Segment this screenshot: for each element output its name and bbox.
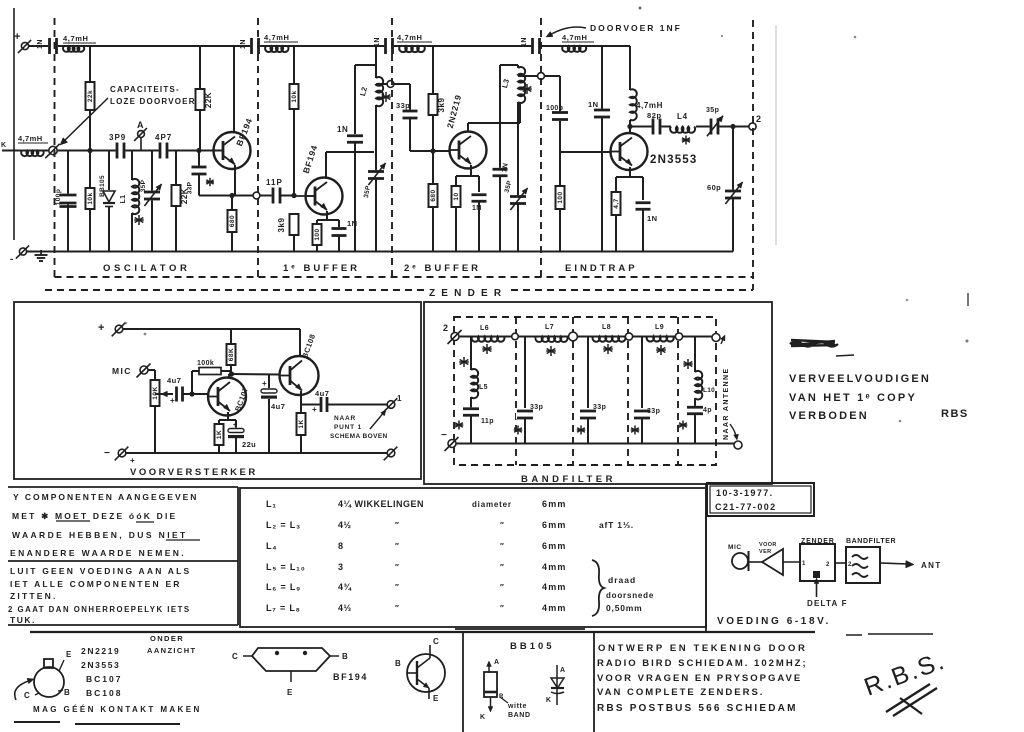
wire osc line — [57, 150, 116, 152]
svg-text:CAPACITEITS-: CAPACITEITS- — [110, 85, 180, 94]
svg-text:3P9: 3P9 — [109, 133, 126, 142]
node osc base junction — [196, 148, 201, 153]
svg-text:+: + — [98, 322, 104, 334]
svg-text:33p: 33p — [396, 101, 410, 110]
wire 68K drop — [230, 329, 232, 344]
svg-text:L9: L9 — [655, 324, 664, 331]
node buf2 base junction — [430, 148, 435, 153]
diode BB105 osc — [108, 151, 110, 252]
block zender — [800, 544, 835, 581]
svg-text:2: 2 — [826, 562, 830, 568]
resistor 100 buf1 — [313, 224, 322, 245]
node bf 4 — [675, 333, 682, 340]
wire buf2 base — [410, 150, 450, 152]
svg-text:witte: witte — [507, 703, 527, 710]
svg-text:0,50mm: 0,50mm — [606, 603, 642, 613]
box bandfilter — [424, 302, 772, 484]
svg-text:TUK.: TUK. — [10, 615, 36, 625]
svg-text:diameter: diameter — [472, 500, 512, 509]
capacitor 100p osc — [67, 151, 69, 252]
svg-text:4,7mH: 4,7mH — [636, 101, 663, 110]
capacitor 1N tank buf1 — [354, 65, 356, 134]
wire supply drop 10k — [293, 46, 295, 84]
svg-text:E: E — [433, 694, 439, 703]
capacitor 1N emitter eindtrap — [635, 201, 652, 210]
resistor 100 eindtrap — [556, 186, 565, 209]
svg-text:1: 1 — [397, 394, 402, 403]
svg-text:RADIO BIRD SCHIEDAM. 102MHZ;: RADIO BIRD SCHIEDAM. 102MHZ; — [597, 658, 808, 669]
inductor 4,7mH eindtrap — [562, 46, 586, 52]
svg-text:2: 2 — [756, 114, 761, 124]
inductor L7 — [535, 337, 567, 342]
ground — [40, 250, 42, 255]
page edge left border — [13, 8, 15, 240]
svg-text:L8: L8 — [602, 324, 611, 331]
svg-text:35p: 35p — [706, 107, 719, 114]
svg-text:4P7: 4P7 — [155, 133, 172, 142]
svg-text:VERVEELVOUDIGEN: VERVEELVOUDIGEN — [789, 373, 931, 385]
svg-text:6mm: 6mm — [542, 520, 567, 530]
resistor 100k — [199, 368, 221, 375]
capacitor 1N emitter buf2 — [471, 193, 488, 202]
svg-text:35P: 35P — [140, 179, 147, 192]
capacitor 4p bf — [686, 406, 704, 415]
svg-text:10k: 10k — [291, 90, 298, 102]
svg-text:11p: 11p — [481, 418, 494, 425]
terminal vv + — [115, 325, 123, 333]
inductor L6 — [472, 337, 505, 342]
transistor underside view — [34, 667, 64, 697]
node bf 3 — [625, 333, 632, 340]
svg-text:−: − — [441, 430, 447, 441]
capacitor 35p trimmer osc — [151, 151, 153, 193]
svg-text:draad: draad — [608, 575, 636, 585]
svg-text:2N3553: 2N3553 — [81, 660, 120, 670]
svg-text:10: 10 — [453, 192, 460, 200]
svg-text:A: A — [494, 659, 499, 666]
svg-text:ONTWERP EN TEKENING DOOR: ONTWERP EN TEKENING DOOR — [598, 643, 807, 654]
wire ground rail — [23, 251, 733, 253]
svg-text:VOOR: VOOR — [759, 542, 777, 548]
terminal vv gnd right — [387, 449, 395, 457]
svg-text:L7: L7 — [545, 324, 554, 331]
capacitor 4u7 output — [320, 396, 329, 413]
border bottom strip — [30, 631, 815, 633]
svg-text:2: 2 — [443, 323, 448, 333]
capacitor 35p trimmer buf2 — [509, 195, 527, 205]
capacitor 35p output — [710, 118, 720, 136]
wire emitter network buf1 — [326, 211, 328, 220]
wire base 2N3553 — [560, 151, 610, 153]
dashed divider buf2/eindtrap — [540, 18, 542, 277]
transistor BC108 — [280, 356, 319, 395]
scribbled word — [790, 340, 838, 347]
terminal bf minus — [448, 440, 456, 448]
svg-text:1ᵉ BUFFER: 1ᵉ BUFFER — [283, 263, 360, 274]
wire cap to base — [183, 393, 208, 395]
svg-text:MAG GÉÉN KONTAKT MAKEN: MAG GÉÉN KONTAKT MAKEN — [33, 705, 202, 714]
svg-text:100p: 100p — [546, 105, 563, 112]
box notes 1 — [8, 486, 238, 488]
terminal MIC — [140, 366, 148, 374]
wire bc107 emitter — [227, 412, 229, 420]
svg-text:C: C — [24, 691, 30, 700]
svg-text:1N: 1N — [521, 37, 528, 47]
svg-text:4,7: 4,7 — [613, 198, 620, 209]
terminal + supply — [21, 42, 28, 49]
resistor 22k left — [86, 82, 95, 110]
resistor 10k buf1 — [290, 84, 299, 109]
box coil table — [240, 488, 706, 627]
capacitor 1N eindtrap left — [601, 46, 603, 110]
svg-text:K: K — [480, 714, 485, 721]
svg-text:VOORVERSTERKER: VOORVERSTERKER — [130, 467, 258, 478]
wire collector BF194 osc — [233, 46, 235, 132]
svg-text:33p: 33p — [647, 408, 660, 415]
wire supply drop 22K — [199, 46, 201, 89]
svg-text:100: 100 — [557, 191, 564, 203]
terminal vv minus — [118, 449, 126, 457]
svg-text:C21-77-002: C21-77-002 — [715, 502, 777, 512]
resistor 68K — [227, 344, 236, 365]
svg-text:-: - — [10, 254, 13, 265]
svg-text:−: − — [104, 448, 110, 459]
inductor L5 branch — [470, 337, 472, 371]
dashed section bottom — [55, 276, 754, 278]
inductor 4,7mH buf2 — [399, 46, 425, 52]
terminal bf out bottom — [734, 441, 742, 449]
wire vv supply rail — [119, 328, 300, 330]
svg-text:2N2219: 2N2219 — [81, 646, 120, 656]
svg-text:BANDFILTER: BANDFILTER — [846, 538, 896, 545]
svg-text:VAN HET 1ᵉ COPY: VAN HET 1ᵉ COPY — [789, 392, 917, 404]
svg-text:″: ″ — [500, 521, 504, 530]
block bandfilter — [846, 547, 880, 583]
svg-text:afT 1⅓.: afT 1⅓. — [599, 520, 634, 530]
svg-text:2ᵉ BUFFER: 2ᵉ BUFFER — [404, 263, 481, 274]
capacitor 60p trimmer — [732, 127, 734, 191]
node collector tank junction — [375, 152, 377, 171]
svg-text:6mm: 6mm — [542, 499, 567, 509]
svg-text:WAARDE HEBBEN, DUS NIET: WAARDE HEBBEN, DUS NIET — [12, 530, 188, 540]
node eindtrap output — [627, 124, 632, 129]
svg-text:4,7mH: 4,7mH — [397, 33, 423, 42]
capacitor 1N rail buf1 — [250, 37, 260, 55]
resistor 1K vv2 — [300, 405, 302, 414]
svg-text:L₆ = L₉: L₆ = L₉ — [266, 582, 301, 592]
svg-text:L10: L10 — [703, 387, 715, 394]
dashed zender bottom — [45, 289, 424, 291]
svg-text:″: ″ — [395, 521, 399, 530]
svg-text:35P: 35P — [504, 179, 514, 193]
svg-text:K: K — [546, 697, 551, 704]
capacitor 4p7 — [159, 142, 169, 160]
svg-text:VAN COMPLETE ZENDERS.: VAN COMPLETE ZENDERS. — [597, 687, 764, 698]
svg-text:″: ″ — [500, 563, 504, 572]
svg-text:4u7: 4u7 — [315, 389, 329, 398]
wire L2 tank top — [375, 46, 377, 78]
node vv collector junction — [229, 371, 234, 376]
svg-text:L₇ = L₈: L₇ = L₈ — [266, 603, 301, 613]
svg-text:″: ″ — [395, 583, 399, 592]
svg-text:4½: 4½ — [338, 520, 352, 530]
capacitor 4u7 input — [175, 386, 184, 403]
svg-text:C: C — [232, 652, 238, 661]
dashed bf divider 1 — [515, 317, 517, 465]
svg-text:NAAR: NAAR — [334, 415, 356, 422]
terminal buf2 out — [518, 75, 538, 77]
wire mic — [148, 369, 155, 371]
svg-text:L4: L4 — [677, 112, 688, 121]
node bf 2 — [569, 332, 578, 341]
svg-text:ONDER: ONDER — [150, 634, 184, 643]
wire zender to bf — [835, 562, 846, 564]
svg-text:″: ″ — [395, 542, 399, 551]
scan artifact line — [775, 25, 777, 245]
svg-text:+: + — [130, 456, 135, 465]
svg-text:11P: 11P — [266, 178, 283, 187]
wire vv ground rail — [122, 452, 391, 454]
resistor 22K osc — [175, 151, 177, 186]
capacitor 33p bf3 — [641, 337, 643, 409]
svg-text:L1: L1 — [120, 195, 127, 204]
resistor 10 buf2 — [452, 186, 461, 207]
wire osc input — [2, 150, 20, 152]
svg-text:L₁: L₁ — [266, 499, 277, 509]
terminal osc out — [253, 192, 260, 199]
node emitter junction — [229, 193, 234, 198]
svg-text:4¾: 4¾ — [338, 582, 353, 592]
svg-text:SCHEMA BOVEN: SCHEMA BOVEN — [330, 433, 388, 440]
svg-text:+: + — [233, 422, 237, 429]
svg-text:BC107: BC107 — [233, 386, 250, 413]
svg-text:4mm: 4mm — [542, 603, 567, 613]
inductor L8 — [593, 337, 626, 342]
capacitor 1N rail eindtrap — [531, 37, 541, 55]
svg-text:4u7: 4u7 — [167, 376, 181, 385]
resistor 10K vv — [151, 380, 160, 406]
wire emitter BF194 osc — [234, 165, 236, 196]
dashed bf divider 3 — [627, 317, 629, 465]
svg-text:DOORVOER 1NF: DOORVOER 1NF — [590, 23, 682, 33]
svg-text:4u7: 4u7 — [271, 402, 285, 411]
node antenna junction — [730, 124, 735, 129]
svg-text:+: + — [262, 379, 267, 388]
node vv base junction — [189, 391, 194, 396]
svg-text:B: B — [395, 659, 401, 668]
svg-text:ZENDER: ZENDER — [429, 288, 507, 299]
svg-text:680: 680 — [430, 189, 437, 201]
diode BB105 package — [488, 663, 490, 673]
svg-text:4,7mH: 4,7mH — [562, 33, 588, 42]
svg-text:4p: 4p — [703, 407, 712, 414]
svg-text:2N2219: 2N2219 — [445, 93, 464, 129]
svg-text:MET ✱ MOET DEZE óóK DIE: MET ✱ MOET DEZE óóK DIE — [12, 511, 177, 521]
svg-text:3k9: 3k9 — [437, 98, 446, 113]
inductor L9 — [647, 337, 674, 342]
svg-text:L₅ = L₁₀: L₅ = L₁₀ — [266, 562, 306, 572]
svg-text:3k9: 3k9 — [277, 218, 286, 233]
svg-text:BB105: BB105 — [510, 641, 555, 652]
svg-text:35P: 35P — [363, 185, 372, 199]
svg-text:60p: 60p — [707, 183, 721, 192]
svg-text:1N: 1N — [374, 37, 381, 47]
dashed border zender right — [752, 20, 754, 290]
svg-text:10-3-1977.: 10-3-1977. — [716, 488, 774, 498]
svg-text:ANT: ANT — [921, 561, 942, 570]
capacitor 4u7 interstage — [268, 375, 270, 389]
svg-text:1N: 1N — [647, 214, 657, 223]
svg-text:4,7mH: 4,7mH — [63, 34, 89, 43]
capacitor 1N tank buf2 — [499, 65, 501, 169]
capacitor 33p feedback — [198, 151, 200, 168]
divider strip 2 — [593, 632, 595, 732]
resistor 10k osc — [89, 110, 91, 252]
wire bc108 emitter — [300, 391, 302, 405]
svg-text:PUNT 1: PUNT 1 — [334, 424, 362, 431]
inductor 4,7mH collector — [629, 46, 631, 90]
capacitor 11p bf — [462, 407, 480, 416]
svg-text:2: 2 — [848, 562, 852, 568]
terminal 2 antenna — [749, 123, 756, 130]
svg-text:IET ALLE COMPONENTEN ER: IET ALLE COMPONENTEN ER — [10, 579, 182, 589]
resistor 680 buf2 — [432, 151, 434, 184]
svg-text:1N: 1N — [37, 39, 44, 49]
node osc line junction 1 — [87, 148, 92, 153]
svg-text:L₂ = L₃: L₂ = L₃ — [266, 520, 301, 530]
terminal ground — [19, 248, 26, 255]
svg-text:NAAR ANTENNE: NAAR ANTENNE — [723, 367, 730, 440]
svg-text:82p: 82p — [647, 111, 662, 120]
transistor BF194 oscillator — [214, 132, 251, 169]
svg-text:10k: 10k — [87, 192, 94, 204]
svg-text:4,7mH: 4,7mH — [18, 134, 43, 143]
svg-text:VERBODEN: VERBODEN — [789, 410, 869, 422]
svg-text:L3: L3 — [500, 78, 511, 89]
svg-text:4,7mH: 4,7mH — [264, 33, 290, 42]
resistor 3k9 buf2 — [429, 94, 438, 115]
resistor 680 osc — [231, 196, 233, 211]
svg-text:22k: 22k — [87, 90, 94, 102]
svg-text:BC107: BC107 — [86, 674, 122, 684]
capacitor 82p — [652, 118, 662, 136]
capacitor 3p9 — [116, 142, 126, 160]
svg-text:4mm: 4mm — [542, 582, 567, 592]
svg-text:E: E — [287, 688, 293, 697]
svg-text:100p: 100p — [55, 189, 62, 205]
svg-text:1K: 1K — [216, 430, 223, 439]
svg-text:22u: 22u — [242, 440, 256, 449]
dashed box bandfilter — [454, 317, 716, 465]
svg-text:33p: 33p — [530, 404, 543, 411]
wire base to 100k — [191, 371, 193, 394]
capacitor 35p trimmer buf1 — [367, 170, 385, 180]
divider strip 1 — [462, 632, 464, 732]
wire collector buf2 — [467, 123, 469, 132]
svg-text:BF194: BF194 — [301, 143, 320, 174]
capacitor 1N emitter buf1 — [331, 227, 348, 237]
svg-text:6mm: 6mm — [542, 541, 567, 551]
svg-text:LUIT GEEN VOEDING AAN ALS: LUIT GEEN VOEDING AAN ALS — [10, 566, 191, 576]
transistor 2N3553 — [611, 133, 648, 170]
svg-text:BC108: BC108 — [300, 333, 317, 360]
svg-text:1: 1 — [802, 561, 806, 567]
wire supply drop 3k9 — [432, 46, 434, 94]
terminal capaciteitsloze doorvoer — [49, 146, 57, 154]
svg-text:BB105: BB105 — [99, 175, 106, 197]
svg-text:BC108: BC108 — [86, 688, 122, 698]
wire bc108 collector — [299, 329, 301, 356]
svg-text:BANDFILTER: BANDFILTER — [521, 474, 616, 485]
svg-text:AANZICHT: AANZICHT — [147, 646, 197, 655]
svg-text:K: K — [1, 142, 6, 149]
dashed divider buf1/buf2 — [391, 18, 393, 277]
svg-text:680: 680 — [229, 215, 236, 227]
package top view BF194 — [252, 648, 330, 671]
node bf 1 — [512, 333, 519, 340]
inductor L1 osc — [131, 151, 133, 181]
svg-text:R.B.S.: R.B.S. — [860, 647, 949, 702]
box date — [707, 483, 814, 516]
resistor 4,7 eindtrap — [612, 192, 621, 215]
svg-text:+: + — [14, 31, 20, 43]
svg-text:2 GAAT DAN ONHERROEPELYK IETS: 2 GAAT DAN ONHERROEPELYK IETS — [8, 605, 191, 614]
resistor 22K bias — [196, 89, 205, 110]
svg-text:L6: L6 — [480, 325, 489, 332]
inductor L3 — [500, 64, 518, 66]
svg-text:ZENDER: ZENDER — [801, 538, 835, 545]
svg-text:ENANDERE WAARDE NEMEN.: ENANDERE WAARDE NEMEN. — [10, 548, 186, 558]
svg-text:L2: L2 — [358, 86, 369, 97]
svg-text:B: B — [342, 652, 348, 661]
svg-text:B: B — [64, 688, 70, 697]
svg-text:C: C — [433, 637, 439, 646]
svg-text:4¼ WIKKELINGEN: 4¼ WIKKELINGEN — [338, 499, 424, 509]
capacitor 33p bf2 — [587, 337, 589, 409]
inductor L2 — [376, 77, 383, 106]
node bf out — [712, 334, 720, 342]
transistor BF194 buffer1 — [306, 178, 343, 215]
capacitor 1N rail osc — [48, 37, 58, 55]
wire bf bottom line — [456, 443, 735, 445]
svg-text:+: + — [312, 405, 317, 414]
svg-text:RBS POSTBUS 566 SCHIEDAM: RBS POSTBUS 566 SCHIEDAM — [597, 703, 798, 714]
transistor 2N2219 buffer2 — [450, 132, 487, 169]
svg-text:A: A — [137, 120, 144, 130]
svg-text:8: 8 — [338, 541, 344, 551]
microphone symbol — [732, 553, 748, 569]
svg-text:100: 100 — [314, 228, 321, 240]
svg-text:3: 3 — [338, 562, 344, 572]
wire emitter network buf2 — [470, 165, 472, 176]
svg-text:VER: VER — [759, 549, 772, 555]
svg-text:1N: 1N — [588, 100, 598, 109]
svg-text:BAND: BAND — [508, 712, 531, 719]
svg-text:A: A — [560, 667, 565, 674]
table brace — [592, 560, 604, 616]
capacitor 33p bf1 — [524, 337, 526, 409]
svg-text:22K: 22K — [204, 92, 213, 108]
svg-text:″: ″ — [500, 604, 504, 613]
svg-text:1N: 1N — [337, 125, 348, 134]
svg-text:2N3553: 2N3553 — [650, 154, 697, 166]
wire output line — [630, 126, 652, 128]
wire bf to ant — [880, 563, 908, 564]
resistor 1K vv1 — [215, 424, 224, 445]
diode BB105 symbol — [556, 665, 558, 705]
wire bf top line — [459, 336, 716, 338]
svg-text:RBS: RBS — [941, 408, 969, 420]
